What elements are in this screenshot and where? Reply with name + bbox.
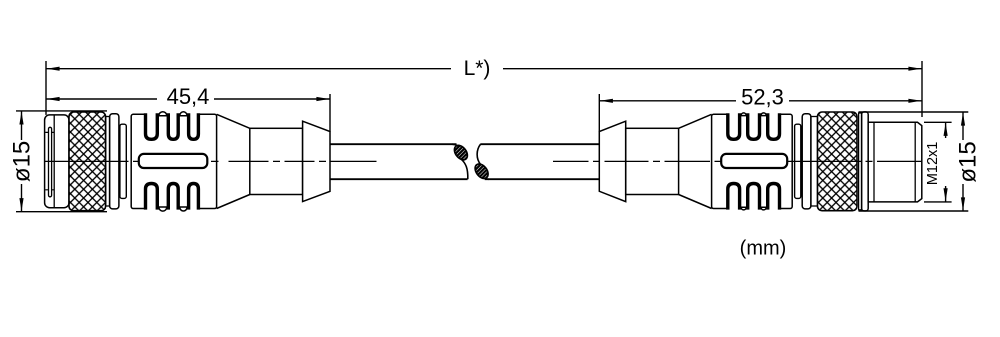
small ring right xyxy=(795,124,801,198)
cable break symbol xyxy=(452,144,489,179)
svg-text:45,4: 45,4 xyxy=(167,84,210,109)
ø15 right dim line xyxy=(962,112,964,140)
right S-curve top line to blob xyxy=(477,144,481,165)
thin ring right xyxy=(859,113,862,210)
ø15 right: ext lines xyxy=(859,111,969,113)
grip body xyxy=(131,114,216,208)
arrow ø15 right dim top xyxy=(961,113,965,126)
svg-text:M12x1: M12x1 xyxy=(925,142,941,186)
left break blob xyxy=(452,143,470,162)
knurled ring right xyxy=(818,112,858,211)
arrow ø15 left dim bottom xyxy=(19,198,23,211)
arrow L dim left xyxy=(47,67,60,71)
arrow 45,4 dim right xyxy=(316,97,329,101)
right body tabs bottom xyxy=(741,207,766,210)
left body grip grooves top xyxy=(146,113,199,139)
arrow M12 dim bottom xyxy=(944,188,948,201)
left body grip grooves bottom xyxy=(146,184,199,210)
right body grooves bottom xyxy=(728,184,780,210)
45,4 dimension line xyxy=(46,98,157,100)
arrow 52,3 dim left xyxy=(600,99,613,103)
grip body right xyxy=(712,114,793,208)
right body grooves top xyxy=(728,113,780,139)
neck ring xyxy=(106,117,110,207)
arrow L dim right xyxy=(908,67,921,71)
left body slot (stadium) xyxy=(139,154,208,168)
left body tabs top xyxy=(159,112,187,116)
svg-text:52,3: 52,3 xyxy=(741,85,784,110)
coupling nut front cap xyxy=(45,115,69,208)
small ring xyxy=(120,124,126,198)
right body slot (stadium) xyxy=(721,154,787,168)
52,3 dimension line xyxy=(599,100,736,102)
ext line right for L / 52,3 xyxy=(921,61,923,117)
svg-text:ø15: ø15 xyxy=(955,141,982,182)
flange ring right xyxy=(862,112,869,211)
arrow ø15 right dim bottom xyxy=(961,197,965,210)
neck ring right xyxy=(811,117,818,207)
L dimension line xyxy=(46,68,451,70)
taper cone right xyxy=(679,114,712,208)
ext line 45,4 right (merges strain relief edge) xyxy=(329,94,331,132)
svg-text:(mm): (mm) xyxy=(740,237,787,259)
knurled coupling ring xyxy=(69,112,106,211)
arrow M12 dim top xyxy=(944,123,948,136)
M12 ext lines xyxy=(924,121,952,123)
rear cylinder right xyxy=(626,128,679,194)
arrow 52,3 dim right xyxy=(908,99,921,103)
svg-text:ø15: ø15 xyxy=(9,141,36,182)
arrow 45,4 dim left xyxy=(47,97,60,101)
M12 thread body xyxy=(868,122,922,202)
ext line 52,3 left xyxy=(598,94,600,132)
washer ring right xyxy=(802,114,811,209)
M12 dim shafts xyxy=(945,122,947,138)
arrowheads xyxy=(19,67,965,212)
ø15 left: ext lines xyxy=(16,110,107,112)
right body tabs top xyxy=(741,113,766,116)
right break blob xyxy=(472,162,490,181)
left curl into blob xyxy=(452,144,460,148)
washer ring xyxy=(110,114,119,209)
arrow ø15 left dim top xyxy=(19,112,23,125)
right curl into blob from bottom line xyxy=(482,175,489,179)
centerline right run xyxy=(553,160,922,162)
left body tabs bottom xyxy=(159,207,187,211)
taper cone xyxy=(217,114,250,208)
ext line shared 45,4 / L left xyxy=(45,61,47,115)
rear cylinder xyxy=(250,128,303,194)
cable right segment xyxy=(480,144,599,179)
strain relief trapezoid right xyxy=(599,121,625,201)
svg-text:L*): L*) xyxy=(464,57,491,80)
strain relief trapezoid xyxy=(303,121,330,201)
centerline left run xyxy=(44,160,377,162)
cable left segment xyxy=(330,144,468,179)
left S-curve blob to bottom line xyxy=(461,159,468,179)
ø15 left dim line (broken for text) xyxy=(21,111,23,140)
